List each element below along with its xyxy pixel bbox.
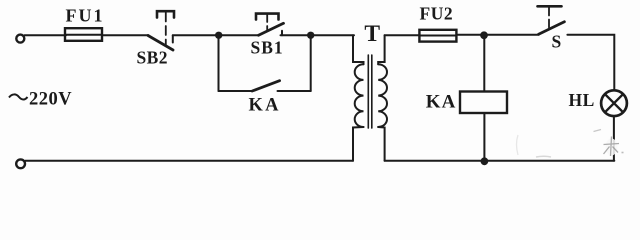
wire: SB1 to node B bbox=[281, 34, 312, 36]
svg-text:FU2: FU2 bbox=[420, 4, 454, 24]
wire: S to top-right corner, down to lamp bbox=[567, 35, 614, 90]
terminal top-left bbox=[16, 35, 24, 43]
wire: node C drop to KA coil bbox=[483, 35, 485, 91]
SB2 actuator stem bbox=[165, 13, 167, 46]
wire: secondary top to FU2 bbox=[385, 34, 420, 36]
switch S blade bbox=[539, 22, 565, 35]
node C junction dot bbox=[480, 31, 488, 39]
transformer core line 1 bbox=[367, 55, 369, 128]
relay coil KA bbox=[460, 92, 507, 114]
wire top: terminal to FU1 bbox=[25, 34, 67, 36]
SB1 actuator stem bbox=[266, 15, 268, 31]
wire through FU1 bbox=[66, 34, 102, 36]
wire: node B to transformer primary bbox=[311, 34, 354, 36]
wire: FU1 to SB2 bbox=[102, 34, 149, 36]
svg-text:HL: HL bbox=[569, 90, 595, 110]
wire: KA coil to bottom node D bbox=[483, 113, 485, 161]
node A junction dot bbox=[215, 32, 222, 39]
pushbutton SB1 (NO) blade bbox=[259, 23, 284, 35]
transformer T secondary bottom lead bbox=[378, 127, 384, 161]
SB2 actuator bar bbox=[157, 11, 174, 17]
wire bottom: terminal to transformer primary bbox=[25, 160, 353, 162]
svg-text:220V: 220V bbox=[29, 90, 72, 110]
svg-text:S: S bbox=[552, 32, 562, 52]
transformer T secondary winding bbox=[378, 64, 387, 127]
label ~220V tilde bbox=[9, 94, 28, 99]
wire through FU2 bbox=[420, 35, 456, 37]
svg-text:SB2: SB2 bbox=[137, 48, 168, 68]
transformer T primary drop bbox=[353, 35, 364, 64]
SB2 right contact tick bbox=[172, 35, 174, 42]
svg-text:T: T bbox=[364, 21, 380, 47]
wire: SB2 to node A bbox=[173, 34, 219, 36]
transformer T secondary drop bbox=[378, 35, 384, 64]
transformer T primary bottom lead bbox=[353, 127, 364, 161]
fuse FU2 bbox=[419, 30, 456, 42]
wire: node B drop to KA branch bbox=[310, 35, 312, 91]
wire: node C to switch S bbox=[484, 34, 539, 36]
SB1 right contact tick bbox=[281, 31, 283, 36]
fuse FU1 bbox=[65, 28, 102, 41]
wire: node A to SB1 bbox=[219, 34, 259, 36]
svg-text:KA: KA bbox=[426, 92, 457, 113]
lamp HL bbox=[601, 90, 627, 116]
switch S actuator bar bbox=[538, 5, 562, 8]
transformer T primary winding bbox=[355, 64, 364, 127]
node D junction dot bbox=[481, 157, 489, 165]
transformer core line 2 bbox=[371, 55, 373, 128]
terminal bottom-left bbox=[16, 159, 25, 168]
wire: KA branch right bbox=[278, 90, 311, 92]
pushbutton SB2 (NC) blade bbox=[148, 36, 173, 51]
svg-text:FU1: FU1 bbox=[66, 6, 105, 26]
SB1 actuator bar bbox=[256, 14, 279, 20]
svg-text:SB1: SB1 bbox=[251, 38, 284, 58]
wire: KA branch left bbox=[219, 90, 253, 92]
switch S actuator stem bbox=[548, 8, 550, 30]
wire: FU2 to node C bbox=[457, 34, 485, 36]
node B junction dot bbox=[307, 32, 314, 39]
wire: node A drop to KA branch bbox=[218, 35, 220, 91]
contact KA (NO) blade bbox=[252, 81, 279, 91]
watermark bbox=[517, 130, 624, 158]
svg-text:KA: KA bbox=[249, 96, 281, 116]
wire bottom: secondary to lamp corner bbox=[385, 160, 615, 162]
wire: lamp to bottom wire bbox=[613, 116, 615, 161]
